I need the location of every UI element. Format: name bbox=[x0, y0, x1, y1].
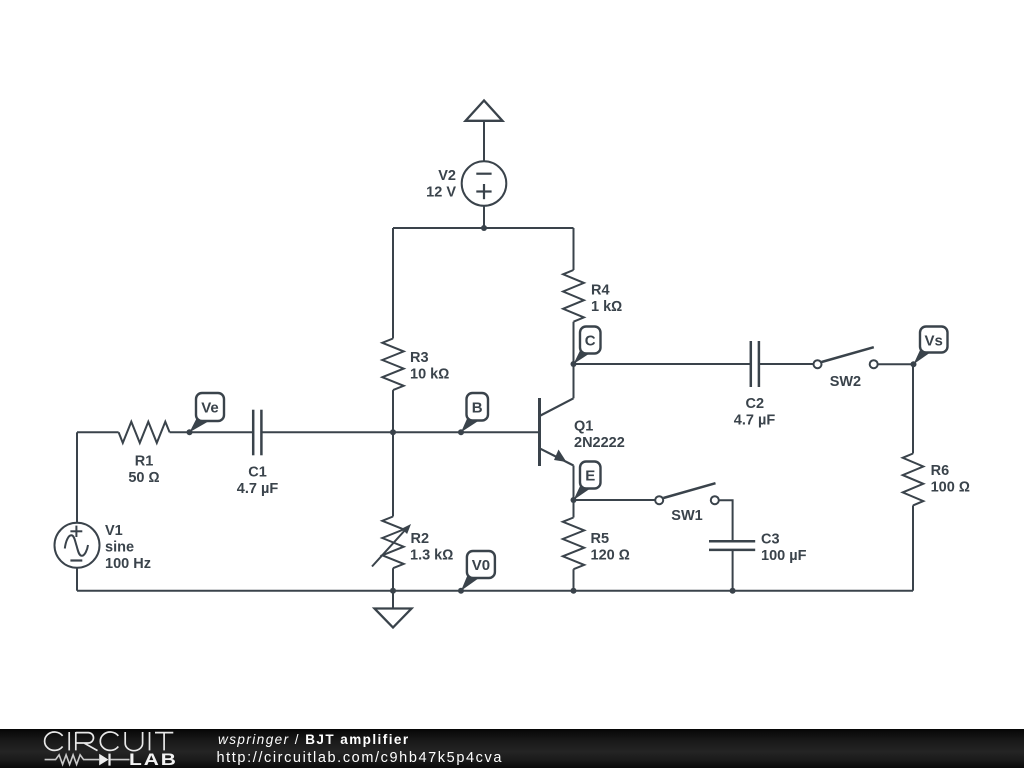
svg-text:V2: V2 bbox=[438, 168, 456, 184]
node label C bbox=[574, 327, 601, 365]
footer url line bbox=[217, 750, 504, 766]
label C1 4.7 uF bbox=[237, 465, 279, 498]
svg-text:100 µF: 100 µF bbox=[761, 548, 807, 564]
svg-text:Vs: Vs bbox=[925, 332, 943, 349]
label SW1 bbox=[671, 508, 702, 524]
resistor R4 bbox=[563, 270, 584, 322]
resistor R5 bbox=[563, 500, 584, 591]
label C2 4.7 uF bbox=[734, 396, 776, 429]
label R3 10 kOhm bbox=[410, 350, 449, 383]
switch SW2 bbox=[814, 347, 878, 368]
svg-text:R4: R4 bbox=[591, 283, 610, 299]
wire top rail bbox=[393, 227, 574, 229]
wire C node to C2 bbox=[574, 363, 751, 365]
resistor R1 bbox=[119, 422, 170, 443]
CircuitLab logo bbox=[0, 729, 220, 768]
svg-text:sine: sine bbox=[105, 540, 134, 556]
wire C3 to bottom rail bbox=[732, 550, 734, 591]
node label E bbox=[574, 462, 601, 501]
node label B bbox=[461, 393, 488, 432]
node junction bottom rail R2 bbox=[390, 588, 396, 594]
svg-text:V0: V0 bbox=[472, 557, 490, 574]
label R1 50 Ohm bbox=[128, 453, 159, 486]
node C bbox=[571, 361, 577, 367]
wire arrow to V2 bbox=[483, 121, 485, 162]
svg-text:12 V: 12 V bbox=[426, 185, 456, 201]
label R6 100 Ohm bbox=[931, 463, 970, 496]
svg-text:50 Ω: 50 Ω bbox=[128, 470, 159, 486]
logo resistor-diode glyph bbox=[45, 754, 130, 766]
node Ve bbox=[187, 429, 193, 435]
svg-text:E: E bbox=[585, 468, 595, 485]
label C3 100 uF bbox=[761, 532, 807, 565]
svg-text:R2: R2 bbox=[411, 531, 430, 547]
label V2 12 V bbox=[426, 168, 456, 201]
transistor Q1 bbox=[540, 398, 574, 500]
svg-text:100 Hz: 100 Hz bbox=[105, 556, 151, 572]
node E bbox=[571, 497, 577, 503]
capacitor C2 bbox=[751, 341, 759, 387]
node label Ve bbox=[190, 393, 225, 432]
svg-text:2N2222: 2N2222 bbox=[574, 435, 625, 451]
wire bottom rail bbox=[77, 590, 913, 592]
logo word CIRCUIT bbox=[45, 732, 174, 751]
svg-text:Ve: Ve bbox=[201, 400, 219, 417]
wire R1 to C1 bbox=[170, 431, 254, 433]
label R4 1 kOhm bbox=[591, 283, 622, 316]
label R2 1.3 kOhm bbox=[410, 531, 453, 564]
svg-text:10 kΩ: 10 kΩ bbox=[410, 367, 449, 383]
switch SW1 bbox=[655, 483, 719, 504]
node Vs bbox=[911, 361, 917, 367]
svg-text:C: C bbox=[585, 333, 596, 350]
node label V0 bbox=[461, 551, 495, 591]
svg-text:B: B bbox=[472, 399, 483, 416]
node junction bottom rail R5 bbox=[571, 588, 577, 594]
ground bbox=[375, 591, 412, 628]
label SW2 bbox=[830, 374, 861, 390]
wire Vs to R6 bbox=[912, 364, 914, 453]
svg-text:R3: R3 bbox=[410, 350, 429, 366]
svg-text:120 Ω: 120 Ω bbox=[591, 548, 630, 564]
node junction bottom rail C3 bbox=[730, 588, 736, 594]
svg-text:C1: C1 bbox=[248, 465, 267, 481]
svg-text:C3: C3 bbox=[761, 532, 780, 548]
capacitor C1 bbox=[253, 410, 261, 456]
wire C1 to base bbox=[261, 431, 538, 433]
node junction base rail bbox=[390, 429, 396, 435]
wire R6 to bottom rail bbox=[912, 505, 914, 590]
svg-text:R1: R1 bbox=[135, 453, 154, 469]
resistor R6 bbox=[903, 454, 924, 506]
voltage source V2 bbox=[462, 161, 507, 206]
voltage source V1 bbox=[55, 432, 100, 590]
svg-text:C2: C2 bbox=[746, 396, 765, 412]
wire R3 to base rail bbox=[392, 390, 394, 432]
wire top rail right drop to R4 bbox=[573, 228, 575, 270]
wire V1 to R1 bbox=[77, 431, 119, 433]
svg-text:1 kΩ: 1 kΩ bbox=[591, 299, 622, 315]
label V1 sine 100 Hz bbox=[105, 523, 151, 572]
logo word LAB bbox=[129, 752, 178, 769]
svg-text:V1: V1 bbox=[105, 523, 123, 539]
footer title line bbox=[218, 732, 410, 747]
wire SW1 to C3 bbox=[719, 500, 733, 541]
label Q1 2N2222 bbox=[574, 419, 625, 452]
capacitor C3 bbox=[709, 541, 755, 550]
wire top rail left drop to R3 bbox=[392, 228, 394, 339]
node label Vs bbox=[914, 327, 948, 365]
svg-text:1.3 kΩ: 1.3 kΩ bbox=[410, 548, 453, 564]
svg-text:SW1: SW1 bbox=[671, 508, 702, 524]
wire E to SW1 bbox=[574, 499, 656, 501]
wire SW2 to Vs bbox=[878, 363, 914, 365]
resistor R3 bbox=[382, 339, 403, 391]
wire V2 to top rail bbox=[483, 206, 485, 228]
svg-text:4.7 µF: 4.7 µF bbox=[734, 413, 776, 429]
svg-text:R5: R5 bbox=[591, 531, 610, 547]
svg-text:Q1: Q1 bbox=[574, 419, 593, 435]
power flag arrow (V2 top) bbox=[466, 101, 503, 121]
node V0 bbox=[458, 588, 464, 594]
footer bar bbox=[0, 729, 1024, 768]
node B bbox=[458, 429, 464, 435]
wire C2 to SW2 bbox=[759, 363, 813, 365]
wire R4 to collector bbox=[573, 322, 575, 399]
svg-text:100 Ω: 100 Ω bbox=[931, 480, 970, 496]
svg-text:SW2: SW2 bbox=[830, 374, 861, 390]
svg-text:4.7 µF: 4.7 µF bbox=[237, 481, 279, 497]
svg-text:R6: R6 bbox=[931, 463, 950, 479]
node junction top rail bbox=[481, 225, 487, 231]
label R5 120 Ohm bbox=[591, 531, 630, 564]
variable resistor R2 bbox=[372, 432, 411, 590]
